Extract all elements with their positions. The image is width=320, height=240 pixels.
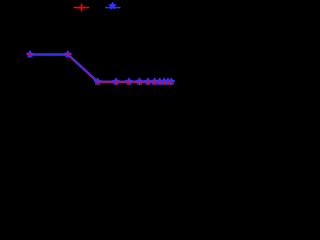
- series 2 blue pentagram markers: [27, 51, 174, 84]
- series 1 red line: [30, 55, 171, 82]
- legend red line sample: [74, 7, 90, 9]
- series 1 red plus markers: [27, 51, 175, 85]
- series 2 blue line: [30, 54, 171, 81]
- legend blue line sample: [105, 7, 120, 9]
- legend blue pentagram marker: [110, 3, 116, 9]
- legend red plus marker: [78, 4, 86, 12]
